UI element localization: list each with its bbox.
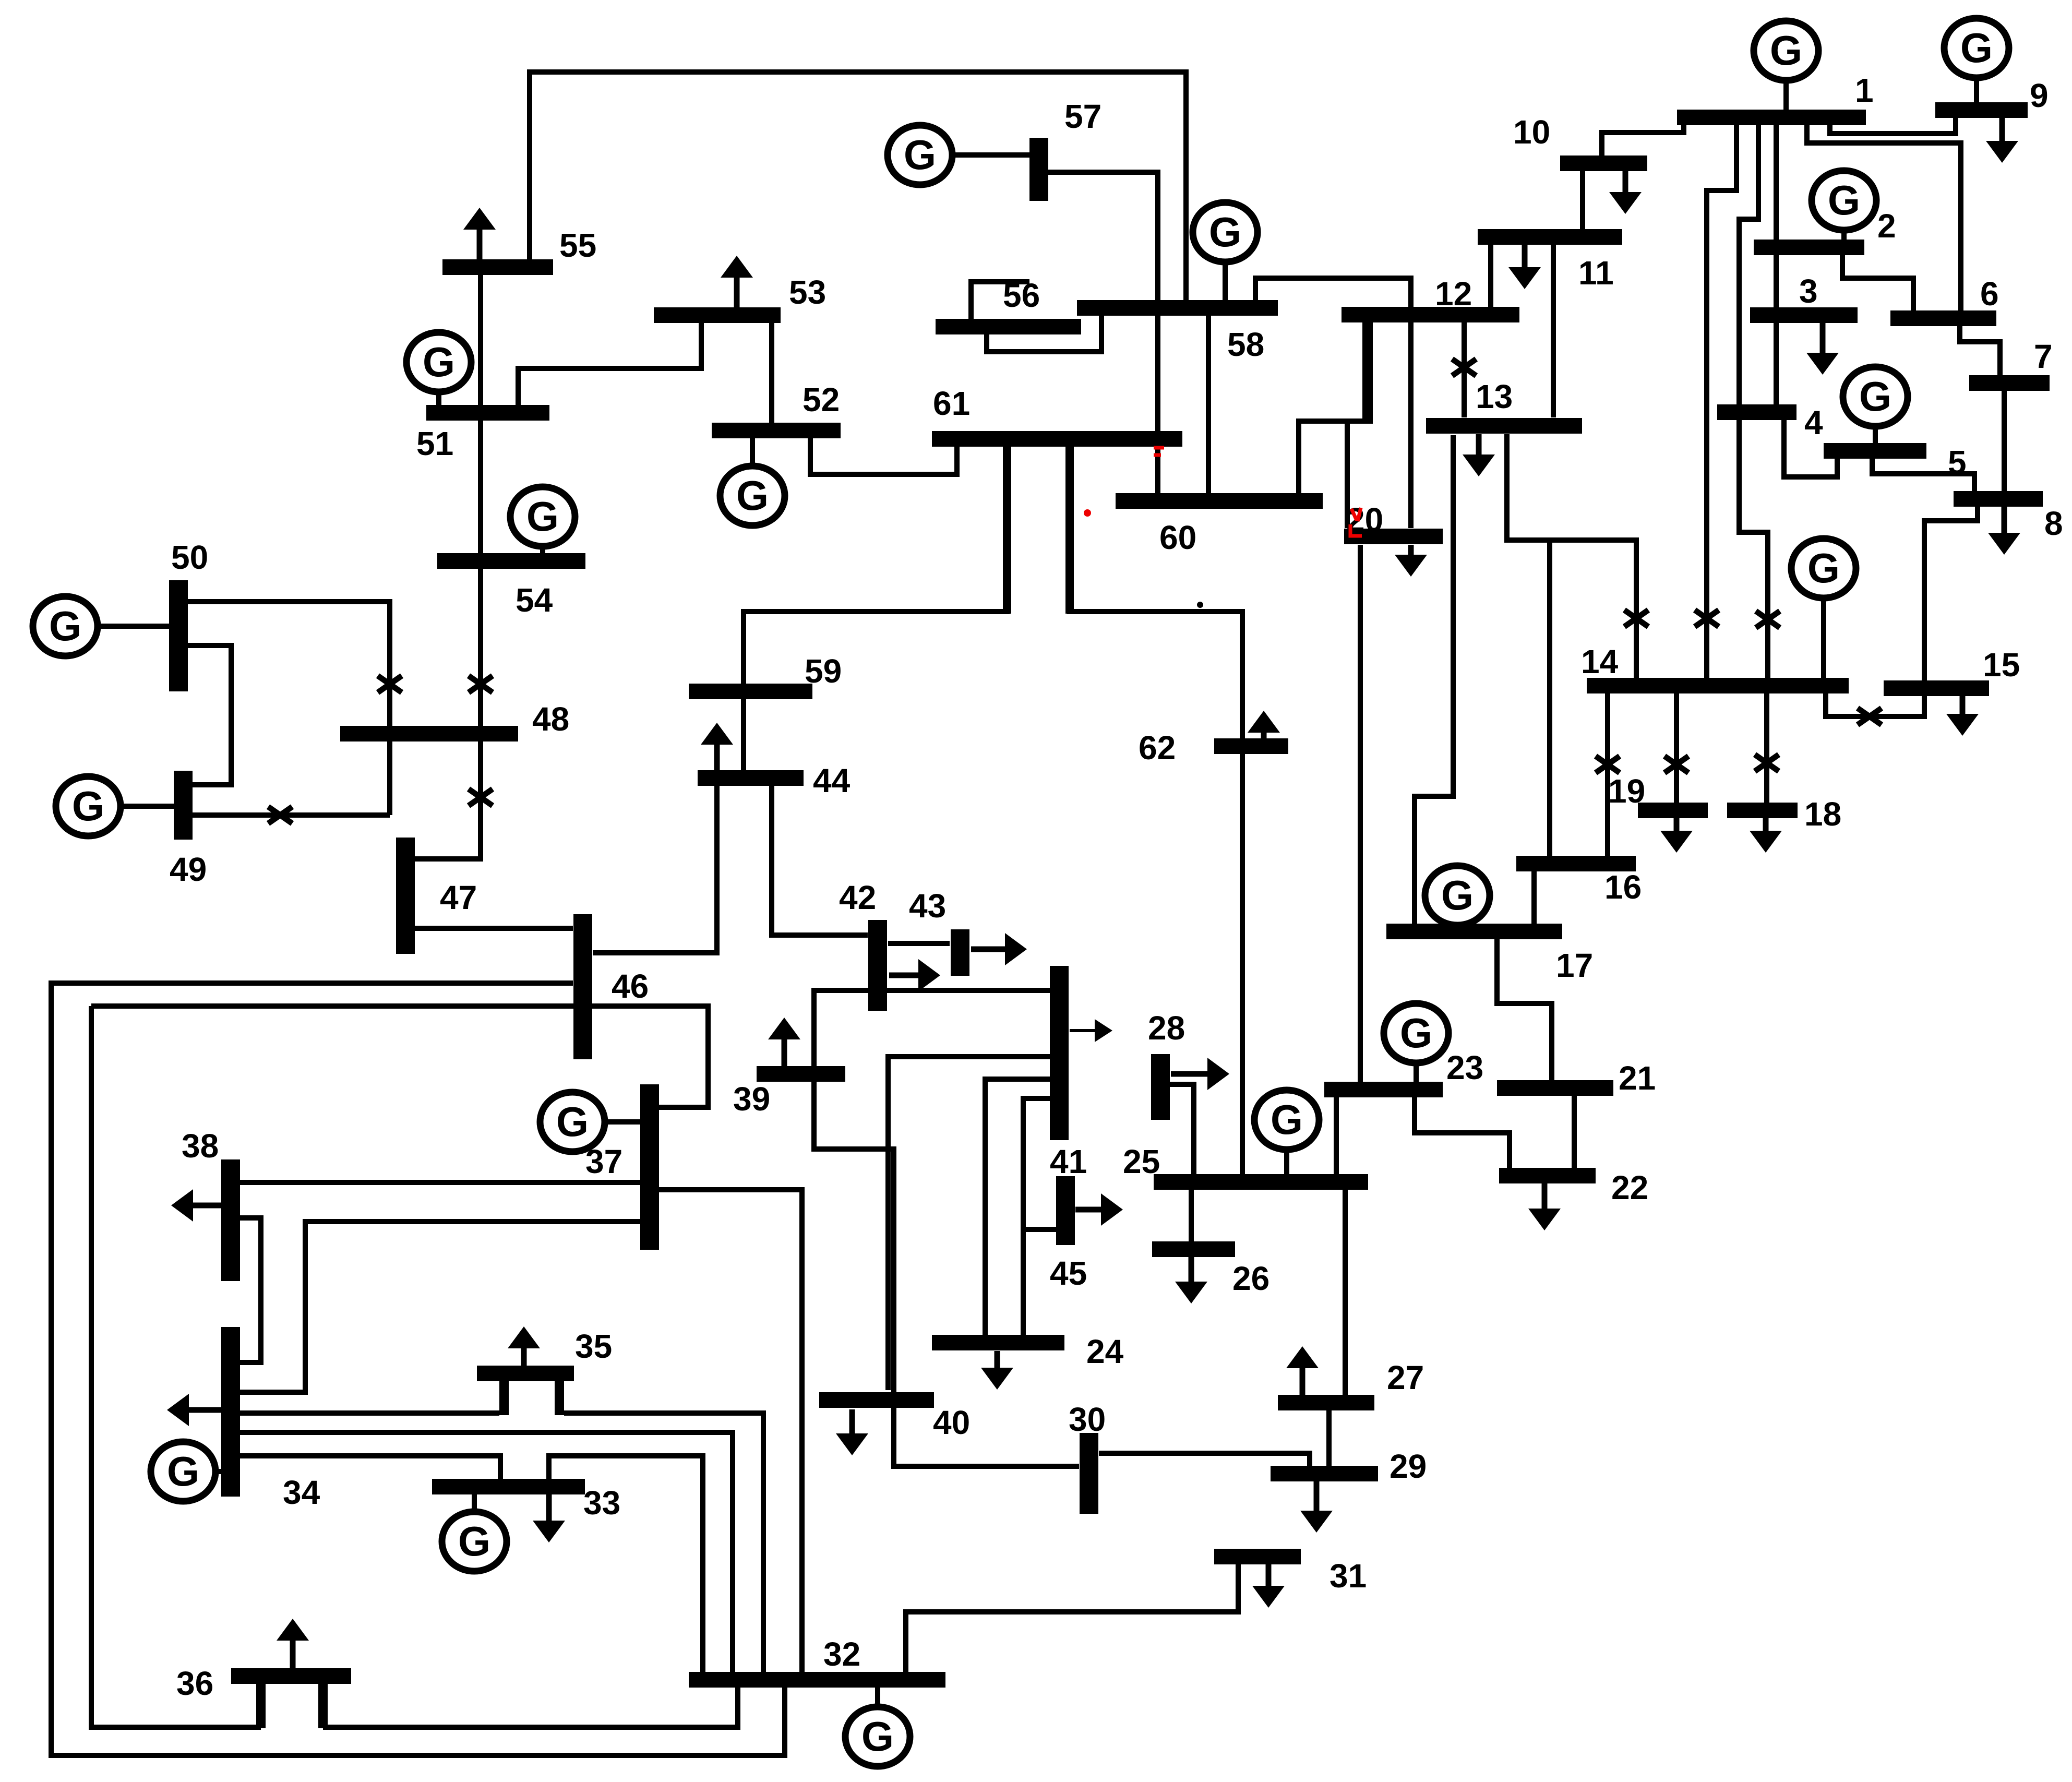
- svg-text:G: G: [1441, 872, 1474, 918]
- bus 11: [1478, 229, 1622, 245]
- load arrow bus 15: [1946, 696, 1979, 736]
- bus 21: [1497, 1080, 1613, 1096]
- load arrow bus 39: [768, 1018, 800, 1067]
- wire 61-62-25: [1070, 446, 1242, 1174]
- bus 23: [1324, 1082, 1443, 1097]
- transformer 14-19: [1664, 756, 1688, 773]
- svg-text:G: G: [1807, 545, 1840, 591]
- generator G14: [1791, 539, 1856, 678]
- svg-text:60: 60: [1159, 519, 1196, 556]
- wire 53-51: [518, 323, 701, 405]
- bus 42 (vertical): [868, 920, 887, 1011]
- svg-text:G: G: [423, 339, 455, 385]
- wire 1-10: [1602, 125, 1684, 156]
- wire 36-32: [323, 1672, 738, 1727]
- svg-text:7: 7: [2034, 338, 2053, 375]
- wire 2-6: [1842, 255, 1913, 310]
- wire 25-27: [1343, 1190, 1348, 1395]
- wire 1-9: [1830, 118, 1956, 134]
- bus 36 right stub: [318, 1684, 328, 1728]
- bus 57 (vertical): [1029, 138, 1048, 201]
- bus 48: [340, 726, 518, 741]
- bus 5: [1824, 443, 1926, 459]
- load arrow bus 53: [721, 256, 753, 307]
- svg-text:10: 10: [1513, 113, 1550, 151]
- bus 16: [1516, 856, 1636, 871]
- load arrow bus 27: [1286, 1346, 1319, 1395]
- load arrow bus 28: [1171, 1058, 1229, 1090]
- transformer 1-14: [1695, 610, 1719, 627]
- wire 16-17: [1531, 871, 1537, 924]
- load arrow bus 8: [1988, 507, 2020, 555]
- wire 8-15-14: [1826, 507, 1978, 716]
- wire 47-46: [415, 926, 573, 931]
- red mark near bus 60 wire: [1154, 448, 1164, 455]
- bus 43 (vertical): [951, 929, 969, 976]
- load arrow bus 18: [1750, 818, 1782, 853]
- bus 15: [1884, 680, 1989, 696]
- wire 6-7: [1960, 326, 2000, 375]
- generator G51: [406, 332, 471, 405]
- svg-text:G: G: [861, 1713, 894, 1760]
- wire 41-40: [888, 1057, 1050, 1390]
- svg-text:16: 16: [1604, 868, 1642, 906]
- wire 37-38: [240, 1180, 640, 1185]
- bus 41 (vertical): [1050, 966, 1069, 1140]
- load arrow bus 11: [1508, 245, 1541, 289]
- wire 49 link: [193, 812, 390, 818]
- wire 5-8: [1872, 459, 1974, 491]
- red dot near bus 60: [1084, 509, 1091, 517]
- small dot annotation: [1197, 602, 1203, 608]
- svg-text:37: 37: [585, 1143, 622, 1180]
- svg-text:23: 23: [1446, 1049, 1483, 1086]
- bus 38 (vertical): [221, 1159, 240, 1281]
- load arrow bus 44: [701, 723, 733, 770]
- bus 33: [432, 1479, 585, 1494]
- svg-text:22: 22: [1611, 1169, 1648, 1206]
- svg-text:62: 62: [1139, 729, 1176, 767]
- svg-text:30: 30: [1069, 1401, 1106, 1438]
- bus 2: [1754, 240, 1864, 255]
- wire 57-56: [971, 282, 1029, 319]
- svg-text:11: 11: [1578, 254, 1614, 292]
- transformer 4-14: [1756, 611, 1780, 628]
- generator G2: [1812, 171, 1876, 240]
- bus 25: [1154, 1174, 1368, 1190]
- load arrow bus 22: [1528, 1183, 1561, 1230]
- generator G34: [151, 1442, 222, 1501]
- wire 60-12: [1299, 322, 1370, 493]
- svg-text:12: 12: [1435, 275, 1472, 313]
- generator G50: [33, 596, 169, 656]
- load arrow bus 20: [1395, 545, 1427, 577]
- bus 59: [689, 684, 812, 699]
- svg-text:G: G: [1960, 25, 1993, 71]
- bus 61 right stub: [1065, 446, 1074, 614]
- load arrow bus 10: [1609, 171, 1642, 214]
- bus 35 right stub: [555, 1381, 564, 1415]
- bus 30 (vertical): [1080, 1433, 1098, 1514]
- wire 55-58 top link: [530, 72, 1186, 301]
- load arrow bus 3: [1806, 323, 1839, 375]
- wire 45 branch: [1023, 1227, 1056, 1232]
- load arrow bus 45: [1075, 1193, 1123, 1226]
- bus 60: [1116, 493, 1323, 509]
- wire 53-52: [769, 323, 774, 423]
- transformer 54-48: [469, 676, 493, 692]
- svg-text:31: 31: [1330, 1557, 1367, 1595]
- wire 14-18: [1764, 693, 1769, 803]
- svg-text:29: 29: [1390, 1448, 1427, 1485]
- wire 1-2-3-4: [1774, 125, 1779, 404]
- svg-text:G: G: [167, 1448, 199, 1494]
- svg-text:28: 28: [1148, 1009, 1185, 1047]
- bus 46 (vertical): [573, 914, 592, 1059]
- svg-text:38: 38: [182, 1127, 219, 1165]
- bus 35 left stub: [499, 1381, 509, 1415]
- svg-text:58: 58: [1227, 326, 1264, 363]
- wire 46-37: [91, 1006, 708, 1107]
- generator G25: [1254, 1090, 1319, 1175]
- generator G58: [1193, 202, 1257, 301]
- bus 54: [437, 553, 585, 569]
- svg-text:G: G: [49, 603, 81, 649]
- svg-text:43: 43: [909, 887, 946, 925]
- wire 1-14: [1707, 125, 1736, 678]
- wire 58-12-20: [1255, 278, 1411, 528]
- wire 23-22: [1415, 1097, 1510, 1168]
- svg-text:G: G: [458, 1518, 490, 1564]
- generator G49: [56, 776, 174, 836]
- svg-text:26: 26: [1232, 1260, 1269, 1297]
- generator G57: [888, 125, 1029, 185]
- transformer 15-14: [1858, 708, 1882, 725]
- transformer 50-48: [378, 676, 402, 692]
- svg-text:G: G: [72, 783, 104, 829]
- svg-text:24: 24: [1086, 1333, 1124, 1370]
- transformer 14-16: [1596, 756, 1620, 773]
- bus 36: [231, 1668, 351, 1684]
- bus 36 left stub: [256, 1684, 266, 1728]
- bus 24: [932, 1335, 1064, 1350]
- wire 14-19: [1674, 693, 1679, 803]
- bus 37 (vertical): [640, 1084, 659, 1250]
- bus 19: [1638, 803, 1708, 818]
- svg-text:53: 53: [789, 273, 826, 311]
- wire 61-59-44: [744, 446, 1007, 771]
- svg-text:G: G: [1209, 209, 1241, 255]
- load arrow bus 38: [171, 1189, 221, 1222]
- generator G54: [510, 487, 575, 554]
- bus 51: [426, 405, 549, 421]
- svg-text:39: 39: [733, 1080, 770, 1118]
- bus 12: [1342, 307, 1519, 322]
- wire 27-29: [1326, 1410, 1332, 1466]
- svg-text:25: 25: [1123, 1143, 1160, 1180]
- wire 20-23: [1358, 545, 1363, 1082]
- svg-text:48: 48: [532, 700, 569, 738]
- wire 14-16 xfmr: [1605, 693, 1610, 856]
- wire 31-32: [906, 1564, 1238, 1672]
- bus 20: [1344, 529, 1443, 544]
- bus 45 (vertical): [1056, 1176, 1075, 1245]
- wire 17-21: [1497, 939, 1552, 1080]
- svg-text:32: 32: [823, 1635, 860, 1673]
- generator G17: [1425, 866, 1490, 925]
- wire 25-26: [1189, 1190, 1194, 1241]
- wire 58-60: [1206, 315, 1211, 494]
- wire 12-20: [1347, 322, 1365, 528]
- svg-text:34: 34: [283, 1474, 320, 1511]
- wire 35-32: [564, 1413, 763, 1672]
- svg-text:50: 50: [171, 539, 208, 576]
- svg-text:15: 15: [1983, 646, 2020, 684]
- svg-text:33: 33: [583, 1484, 620, 1522]
- bus 40: [819, 1392, 934, 1408]
- bus 22: [1499, 1168, 1596, 1183]
- svg-text:G: G: [556, 1098, 589, 1145]
- svg-text:41: 41: [1050, 1143, 1087, 1180]
- wire 38-34: [240, 1218, 261, 1362]
- svg-text:G: G: [904, 131, 936, 178]
- svg-text:3: 3: [1799, 272, 1818, 310]
- load arrow bus 24: [981, 1351, 1013, 1390]
- load arrow bus 55: [463, 208, 496, 260]
- wire 13-17: [1415, 435, 1453, 924]
- wire 50-49: [188, 645, 231, 785]
- svg-text:35: 35: [575, 1327, 612, 1365]
- load arrow bus 26: [1175, 1257, 1207, 1303]
- wire 23-25: [1334, 1097, 1339, 1174]
- transformer 14-18: [1755, 755, 1779, 771]
- svg-text:1: 1: [1855, 71, 1874, 109]
- generator G9: [1944, 18, 2009, 103]
- svg-text:G: G: [736, 472, 769, 519]
- svg-text:G: G: [1770, 27, 1802, 74]
- svg-text:8: 8: [2044, 505, 2063, 542]
- wire 41-45-24: [1023, 1098, 1050, 1335]
- wire 50-48: [188, 602, 390, 815]
- bus 1: [1677, 110, 1866, 125]
- generator G33: [442, 1494, 507, 1571]
- svg-text:45: 45: [1050, 1254, 1087, 1292]
- wire 44-42: [772, 786, 868, 935]
- svg-text:4: 4: [1804, 404, 1823, 441]
- bus 8: [1954, 491, 2043, 507]
- svg-text:40: 40: [933, 1404, 970, 1441]
- bus 13: [1426, 418, 1582, 434]
- load arrow bus 29: [1300, 1481, 1333, 1533]
- svg-text:G: G: [1828, 177, 1860, 223]
- bus 26: [1152, 1241, 1235, 1257]
- svg-text:47: 47: [440, 879, 477, 916]
- generator G32: [845, 1688, 910, 1766]
- wire 7-8: [2002, 391, 2007, 491]
- wire 33-32: [549, 1456, 703, 1672]
- svg-text:17: 17: [1556, 947, 1593, 984]
- wire 37-34: [240, 1222, 640, 1392]
- wire 4-5: [1784, 420, 1837, 477]
- bus 9: [1935, 102, 2028, 118]
- bus 39: [757, 1066, 845, 1082]
- bus 17: [1386, 924, 1562, 939]
- svg-text:13: 13: [1476, 378, 1513, 415]
- wire 34-35: [240, 1410, 499, 1416]
- bus 53: [654, 307, 781, 323]
- wire 13-14: [1507, 434, 1636, 678]
- svg-text:21: 21: [1619, 1059, 1656, 1097]
- load arrow bus 43: [971, 933, 1027, 965]
- wire 56-58: [987, 315, 1101, 352]
- bus 52: [712, 423, 841, 438]
- svg-text:9: 9: [2030, 77, 2049, 114]
- bus 58: [1077, 300, 1278, 316]
- svg-text:2: 2: [1877, 207, 1896, 245]
- svg-text:59: 59: [805, 652, 842, 690]
- wire 11-12: [1488, 245, 1493, 307]
- wire loopB 46-36: [91, 1006, 261, 1727]
- svg-text:G: G: [1859, 373, 1891, 420]
- generator G1: [1754, 21, 1818, 110]
- generator G23: [1384, 1003, 1448, 1082]
- wire 1-4-14: [1739, 125, 1768, 678]
- bus 55: [442, 259, 553, 275]
- svg-text:14: 14: [1581, 643, 1619, 680]
- bus 7: [1969, 375, 2050, 391]
- svg-text:46: 46: [612, 967, 649, 1005]
- svg-text:36: 36: [176, 1665, 213, 1702]
- wire 13-16: [1547, 540, 1552, 856]
- bus 32: [689, 1672, 945, 1688]
- svg-text:6: 6: [1980, 275, 1999, 313]
- svg-text:57: 57: [1064, 98, 1101, 135]
- bus 61 left stub: [1003, 446, 1011, 614]
- svg-text:61: 61: [933, 385, 970, 422]
- svg-text:49: 49: [170, 851, 207, 888]
- bus 47 (vertical): [396, 838, 415, 954]
- bus 18: [1727, 803, 1798, 818]
- load arrow bus 34: [167, 1394, 221, 1426]
- wire 1-6: [1807, 125, 1961, 310]
- bus 14: [1587, 678, 1849, 693]
- bus 44: [698, 770, 804, 786]
- svg-text:G: G: [1271, 1096, 1303, 1143]
- bus 62: [1214, 738, 1288, 754]
- bus 31: [1214, 1549, 1301, 1564]
- wire 34-33: [240, 1456, 500, 1480]
- load arrow bus 41: [1070, 1019, 1112, 1042]
- bus 61: [932, 431, 1182, 447]
- wire 46-44: [593, 786, 717, 953]
- load arrow bus 36: [277, 1619, 309, 1668]
- svg-text:54: 54: [516, 581, 553, 619]
- wire 12-13: [1462, 322, 1467, 417]
- transformer 49-48: [268, 807, 292, 823]
- svg-text:18: 18: [1804, 795, 1841, 833]
- svg-text:56: 56: [1003, 277, 1040, 314]
- load arrow bus 42: [889, 959, 940, 991]
- transformer 48-47: [469, 789, 493, 806]
- transformer 13-14: [1624, 610, 1648, 627]
- wire 37-32: [659, 1190, 802, 1672]
- bus 49 (vertical): [174, 771, 193, 840]
- load arrow bus 31: [1252, 1564, 1285, 1608]
- svg-text:55: 55: [559, 226, 596, 264]
- svg-text:42: 42: [839, 879, 876, 916]
- bus 10: [1560, 156, 1647, 171]
- generator G52: [720, 438, 785, 525]
- svg-text:52: 52: [803, 381, 840, 418]
- bus 6: [1890, 310, 1996, 326]
- generator G5: [1843, 367, 1908, 444]
- svg-text:19: 19: [1608, 772, 1645, 810]
- wire 10-11: [1580, 171, 1585, 229]
- wire 34-32: [240, 1432, 733, 1672]
- bus 34 (vertical): [221, 1327, 240, 1497]
- wire 21-22: [1572, 1096, 1577, 1168]
- red scribble near label 20: [1350, 508, 1362, 536]
- generator G37: [540, 1092, 640, 1152]
- bus 3: [1750, 307, 1858, 323]
- transformer 12-13: [1452, 359, 1476, 376]
- load arrow bus 9: [1986, 118, 2018, 163]
- wire 30-29: [1099, 1453, 1310, 1466]
- wire 41-39-40-30: [814, 990, 1079, 1466]
- svg-text:G: G: [1400, 1010, 1432, 1056]
- wire 42-43: [888, 941, 950, 946]
- wire loopA 46-32: [51, 983, 785, 1755]
- wire 11-13: [1551, 245, 1556, 417]
- wire 55-51-54-48-47: [415, 275, 481, 859]
- bus 27: [1278, 1395, 1374, 1410]
- load arrow bus 19: [1660, 818, 1693, 853]
- load arrow bus 33: [533, 1494, 565, 1542]
- load arrow bus 40: [836, 1409, 868, 1455]
- wire 61-52: [810, 438, 957, 474]
- bus 50 (vertical): [169, 580, 188, 691]
- bus 35: [477, 1366, 574, 1381]
- bus 4: [1717, 404, 1796, 420]
- load arrow bus 13: [1463, 434, 1495, 476]
- svg-text:44: 44: [813, 762, 851, 799]
- bus 28 (vertical): [1151, 1054, 1170, 1120]
- bus 56: [936, 319, 1081, 334]
- load arrow bus 35: [508, 1326, 540, 1366]
- wire 57-58-60: [1048, 172, 1158, 494]
- svg-text:G: G: [526, 493, 559, 540]
- wire 28-25: [1170, 1084, 1194, 1174]
- wire 41-24: [985, 1079, 1050, 1335]
- bus 29: [1271, 1466, 1378, 1481]
- svg-text:51: 51: [416, 425, 453, 462]
- svg-text:5: 5: [1948, 444, 1967, 481]
- svg-text:27: 27: [1387, 1359, 1424, 1396]
- load arrow bus 62: [1248, 711, 1280, 738]
